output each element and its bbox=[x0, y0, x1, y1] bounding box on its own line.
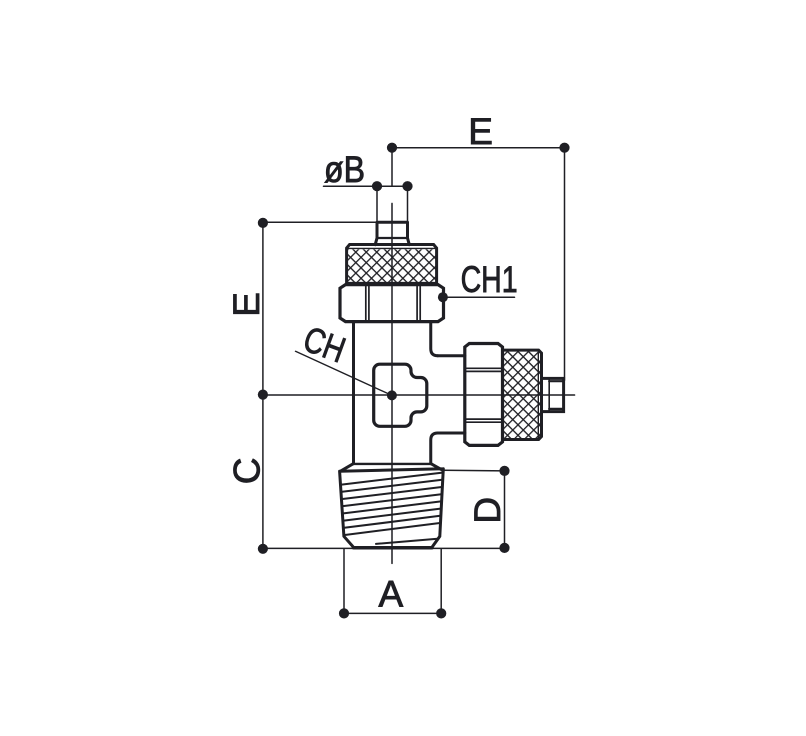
svg-text:E: E bbox=[226, 292, 267, 317]
top stub tube bbox=[375, 222, 409, 244]
body tube bbox=[341, 322, 444, 472]
svg-text:E: E bbox=[468, 111, 493, 152]
svg-text:A: A bbox=[378, 574, 403, 615]
label A bbox=[378, 574, 403, 615]
bottom datum line bbox=[263, 547, 505, 549]
right hex nut bbox=[465, 344, 503, 446]
top hex facet lines bbox=[366, 286, 420, 319]
top hex nut CH1 bbox=[340, 285, 444, 322]
dimension E top bbox=[387, 143, 570, 381]
dimension A bbox=[339, 549, 446, 619]
thread tapered male bbox=[340, 469, 444, 548]
body cavity section bbox=[374, 364, 427, 426]
right knurl cross-hatch bbox=[503, 350, 541, 439]
top knurled nut bbox=[347, 245, 437, 284]
right knurled nut bbox=[503, 350, 542, 439]
dimension oB bbox=[324, 181, 413, 222]
label D bbox=[467, 497, 508, 524]
right hex facet lines bbox=[466, 368, 501, 422]
vertical centerline bbox=[391, 203, 393, 563]
CH1 leader line bbox=[438, 292, 515, 302]
dimension D bbox=[444, 466, 510, 553]
right knurl inner line bbox=[537, 352, 539, 438]
svg-text:C: C bbox=[227, 458, 268, 485]
label CH bbox=[298, 318, 351, 371]
label CH1 bbox=[461, 259, 518, 300]
top knurl cross-hatch bbox=[348, 249, 436, 282]
label C left bbox=[227, 458, 268, 485]
svg-text:øB: øB bbox=[324, 149, 365, 190]
right stub tube bbox=[542, 378, 564, 411]
svg-text:CH1: CH1 bbox=[461, 259, 518, 300]
thread crest lines bbox=[341, 473, 443, 544]
label E left bbox=[226, 292, 267, 317]
CH leader line bbox=[296, 351, 397, 400]
svg-text:CH: CH bbox=[298, 318, 351, 371]
svg-text:D: D bbox=[467, 497, 508, 524]
top knurl inner line bbox=[348, 247, 436, 249]
dimension E C left bbox=[258, 218, 377, 554]
label oB bbox=[324, 149, 365, 190]
horizontal centerline bbox=[263, 394, 575, 396]
right branch tube bbox=[438, 356, 465, 433]
label E top bbox=[468, 111, 493, 152]
